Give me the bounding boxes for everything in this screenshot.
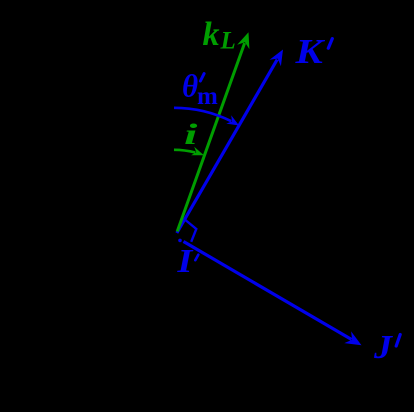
arc theta'_m arrowhead	[226, 115, 239, 125]
svg-text:k: k	[203, 16, 220, 53]
svg-text:m: m	[197, 83, 218, 110]
wire: blue ray J' shaft	[184, 242, 352, 340]
svg-text:θ: θ	[182, 68, 198, 104]
svg-text:J: J	[373, 328, 394, 366]
svg-text:I: I	[176, 242, 194, 280]
right-angle mark at I'	[185, 220, 197, 242]
svg-text:K: K	[294, 32, 325, 71]
arc i	[174, 150, 195, 153]
label J' : prime	[396, 335, 400, 347]
arc i arrowhead	[191, 147, 204, 155]
arc theta'_m	[174, 108, 231, 121]
label I' : prime	[195, 255, 198, 261]
blue ray K' arrowhead	[270, 50, 283, 67]
label theta : prime	[200, 74, 204, 81]
wire: green ray k_L shaft	[177, 43, 244, 231]
label K' : prime	[328, 39, 332, 49]
wire: blue ray K' shaft	[177, 60, 277, 234]
green ray k_L arrowhead	[237, 32, 249, 49]
blue ray J' arrowhead	[344, 331, 361, 345]
node I' dot	[178, 239, 182, 243]
svg-text:L: L	[220, 28, 236, 55]
svg-text:i: i	[184, 117, 197, 151]
